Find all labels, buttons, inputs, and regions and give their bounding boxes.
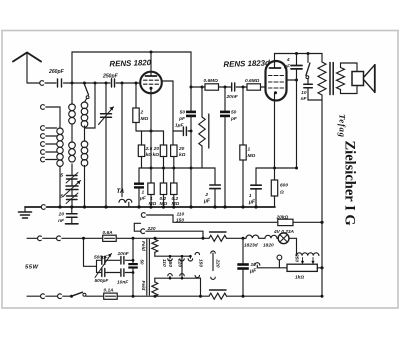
svg-text:Feld: Feld (140, 241, 146, 252)
svg-text:1: 1 (248, 147, 251, 153)
svg-text:RENS 1823d: RENS 1823d (223, 58, 270, 69)
resistor 0.6M a (191, 78, 231, 90)
mains line 1 (27, 236, 103, 241)
wire speaker leads (341, 63, 358, 94)
svg-text:20: 20 (178, 146, 185, 152)
resistor 1M b (240, 87, 256, 207)
svg-text:0.6A: 0.6A (103, 230, 114, 236)
field coil core (147, 240, 150, 296)
svg-text:260pF: 260pF (48, 69, 65, 75)
variable capacitor padding (63, 179, 81, 197)
svg-text:1: 1 (142, 190, 145, 196)
wire to tube grid (116, 82, 141, 85)
wire cathode row (136, 130, 164, 146)
svg-text:pF: pF (230, 116, 238, 122)
svg-text:20kΩ: 20kΩ (276, 214, 289, 220)
tube U1 RENS 1820 (140, 52, 162, 93)
svg-text:1μF: 1μF (175, 123, 185, 129)
svg-text:10nF: 10nF (118, 251, 130, 257)
wire coil column (72, 83, 95, 142)
svg-text:20: 20 (153, 146, 160, 152)
wire pot to minus rail (317, 266, 323, 269)
wire tube2 cathode (274, 101, 276, 169)
svg-text:RENS 1820: RENS 1820 (109, 58, 152, 68)
svg-text:150: 150 (176, 217, 184, 223)
heater 1820 (259, 235, 277, 248)
svg-text:1823d: 1823d (244, 243, 259, 249)
svg-text:μF: μF (283, 64, 291, 70)
speaker LS (352, 65, 375, 92)
svg-text:μF: μF (139, 195, 147, 201)
svg-text:pF: pF (178, 116, 186, 122)
resistor 1M (148, 131, 157, 207)
svg-text:2: 2 (204, 192, 208, 198)
switch tone (306, 54, 310, 85)
lamp 4V 0.23A (273, 229, 295, 244)
mains line 2 (27, 294, 73, 299)
field coil winding 2 (140, 278, 158, 296)
svg-text:110: 110 (177, 212, 185, 218)
svg-text:MΩ: MΩ (248, 153, 256, 159)
capacitor 20nF coupling (226, 83, 248, 100)
svg-text:Feld: Feld (140, 281, 146, 292)
svg-text:μF: μF (203, 199, 211, 205)
resistor 20k line (276, 214, 324, 225)
coil L4 (81, 141, 88, 166)
svg-text:500pF: 500pF (94, 254, 109, 260)
resistor 0.2M b (171, 168, 180, 207)
pickup jacks TA (117, 188, 132, 207)
transformer T1 secondary (337, 68, 345, 90)
capacitor 4uF (283, 54, 302, 169)
svg-text:1820: 1820 (263, 243, 274, 249)
svg-text:0.2: 0.2 (160, 196, 167, 202)
wire tube1 cathode (150, 93, 152, 131)
wire tube1 anode out (162, 81, 173, 145)
potentiometer volume (199, 86, 209, 169)
svg-text:5: 5 (60, 173, 63, 179)
svg-text:500pF: 500pF (95, 278, 110, 284)
svg-text:50: 50 (231, 110, 237, 116)
svg-text:220: 220 (177, 258, 183, 267)
field coil winding 1 (140, 238, 158, 256)
capacitor 500pF a (94, 254, 120, 264)
svg-text:2: 2 (140, 110, 144, 116)
svg-text:TA: TA (117, 188, 125, 195)
svg-text:0.6MΩ: 0.6MΩ (245, 78, 260, 84)
svg-text:10: 10 (301, 90, 307, 96)
svg-text:20: 20 (58, 212, 65, 218)
ground bus (25, 205, 275, 210)
resistor 20k b (171, 145, 186, 168)
svg-text:μF: μF (248, 200, 256, 206)
svg-text:0.1A: 0.1A (104, 288, 115, 294)
resistor 2.5k (138, 131, 152, 168)
coil L1 (69, 104, 76, 124)
wire cathode2 row (256, 167, 298, 170)
coil L2 (81, 102, 88, 127)
tap line lower (155, 274, 201, 297)
resistor 600 ohm (271, 168, 288, 207)
band switch (85, 85, 90, 103)
svg-text:kΩ: kΩ (153, 152, 160, 158)
wire screen row (139, 167, 202, 170)
wire antenna input (27, 81, 56, 86)
resistor dropper 2 (209, 290, 324, 299)
trimmer capacitor 5pF lower (60, 190, 78, 208)
capacitor 50nF block (128, 238, 138, 296)
tap line upper (155, 255, 193, 278)
coil L3 (69, 142, 76, 162)
antenna tap plugs (41, 105, 60, 162)
wire filter drop (82, 237, 97, 273)
svg-text:0.2: 0.2 (172, 196, 179, 202)
antenna (13, 53, 41, 84)
selector labels (161, 258, 220, 268)
svg-text:1: 1 (249, 193, 252, 199)
svg-text:1kΩ: 1kΩ (295, 275, 304, 281)
tap arrows (293, 253, 314, 264)
svg-text:220: 220 (215, 259, 221, 268)
variable capacitor tuning gang (99, 83, 114, 207)
svg-text:250: 250 (293, 253, 299, 262)
svg-text:55W: 55W (25, 265, 39, 271)
wire tube2 screen (287, 79, 299, 82)
svg-text:Ω: Ω (279, 190, 284, 196)
potentiometer heater winding (297, 253, 319, 256)
capacitor 2uF (202, 168, 220, 207)
wire right vertical rail (321, 100, 323, 296)
wire lamp to pot (289, 238, 297, 252)
svg-text:0.6MΩ: 0.6MΩ (204, 78, 219, 84)
heater 1823d (244, 235, 259, 248)
tapped antenna coil L5 (57, 128, 63, 207)
capacitor 10nF tone (301, 84, 322, 102)
arrow variable (95, 254, 112, 278)
wire AVC line (121, 83, 123, 197)
plug pair right (211, 251, 215, 279)
svg-text:50: 50 (180, 110, 186, 116)
capacitor 10nF a (118, 251, 134, 264)
mains switch (72, 292, 104, 296)
svg-text:Tefag: Tefag (338, 114, 348, 138)
svg-text:20nF: 20nF (226, 94, 239, 100)
svg-text:150: 150 (198, 259, 204, 267)
fuse 0.1A (104, 288, 118, 300)
transformer T1 core (330, 63, 333, 95)
fuse 0.6A (103, 230, 117, 242)
wire heater feed (116, 237, 209, 240)
svg-text:1: 1 (150, 196, 153, 202)
capacitor 500pF b (95, 269, 120, 284)
plug pair mid (195, 252, 199, 277)
capacitor 10uF (237, 238, 257, 296)
wire L4 to bus (84, 166, 86, 208)
svg-text:μF: μF (249, 269, 257, 275)
svg-text:110: 110 (161, 259, 167, 267)
capacitor 20nF ground (58, 207, 78, 224)
svg-text:10: 10 (251, 262, 257, 268)
capacitor 1uF cathode2 (248, 168, 261, 207)
wire tube2 anode to rail (275, 52, 323, 61)
capacitor 50pF a (178, 86, 196, 208)
svg-text:Zielsicher I G: Zielsicher I G (342, 141, 358, 226)
resistor 1k heater (287, 264, 317, 280)
svg-text:10nF: 10nF (117, 280, 129, 286)
resistor 0.6M b (245, 78, 266, 90)
ground symbol (19, 207, 32, 218)
transformer T1 primary (318, 54, 326, 101)
tube U2 RENS 1823d (266, 61, 287, 101)
wire grid line (64, 82, 111, 85)
svg-text:4V 0.23A: 4V 0.23A (273, 229, 295, 235)
svg-text:kΩ: kΩ (179, 152, 186, 158)
svg-text:50: 50 (139, 260, 144, 265)
resistor 0.2M a (160, 168, 168, 207)
svg-text:250pF: 250pF (102, 74, 119, 80)
svg-text:4: 4 (286, 57, 290, 63)
plug 110-150 line (141, 212, 277, 224)
resistor dropper 1 (209, 232, 246, 241)
capacitor 10nF b (117, 269, 133, 286)
capacitor 1uF coupling (173, 123, 191, 136)
svg-text:220: 220 (147, 226, 156, 232)
svg-text:600: 600 (280, 183, 288, 189)
resistor 20k a (153, 145, 167, 168)
resistor 2M grid leak (133, 82, 149, 132)
wire top supply rail (72, 51, 191, 88)
trimmer capacitor 5pF upper (60, 164, 78, 183)
capacitor 1uF cathode (134, 168, 147, 207)
svg-text:5: 5 (60, 194, 63, 200)
capacitor 260pF (48, 69, 65, 87)
svg-text:150: 150 (167, 259, 173, 267)
plug heater tap (255, 255, 287, 268)
capacitor 250pF (102, 74, 119, 88)
plug 220 line (134, 223, 203, 238)
svg-text:MΩ: MΩ (141, 116, 149, 122)
capacitor 50pF b (220, 87, 238, 207)
wire mains 2 (117, 295, 209, 298)
